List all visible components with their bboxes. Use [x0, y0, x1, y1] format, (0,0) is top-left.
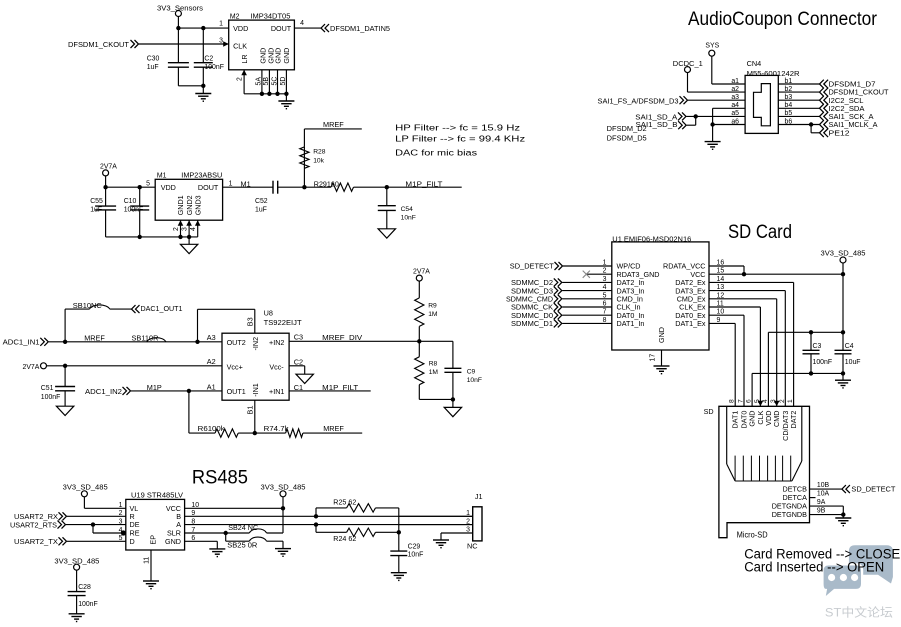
svg-text:MREF_DIV: MREF_DIV: [322, 333, 362, 342]
svg-text:VDD: VDD: [233, 24, 248, 33]
svg-text:6: 6: [746, 399, 753, 403]
svg-text:1: 1: [466, 510, 470, 517]
svg-text:ADC1_IN2: ADC1_IN2: [85, 387, 122, 396]
svg-text:EP: EP: [148, 535, 157, 545]
svg-text:U19 STR485LV: U19 STR485LV: [131, 490, 183, 499]
svg-text:MREF: MREF: [323, 424, 344, 433]
svg-text:5B: 5B: [263, 77, 270, 86]
svg-text:+IN2: +IN2: [269, 338, 284, 347]
svg-text:J1: J1: [475, 492, 483, 501]
svg-text:HP Filter --> fc = 15.9 Hz: HP Filter --> fc = 15.9 Hz: [395, 123, 520, 132]
svg-text:Vcc+: Vcc+: [227, 362, 243, 371]
svg-text:1uF: 1uF: [90, 207, 102, 214]
svg-text:a1: a1: [731, 78, 739, 85]
svg-text:R9: R9: [428, 303, 437, 310]
svg-text:DFSDM1_CKOUT: DFSDM1_CKOUT: [68, 40, 130, 49]
svg-text:100nF: 100nF: [813, 359, 833, 366]
svg-text:10k: 10k: [313, 158, 324, 165]
svg-text:DAT1: DAT1: [731, 411, 740, 429]
svg-text:8: 8: [729, 399, 736, 403]
svg-text:5C: 5C: [271, 77, 278, 86]
svg-text:OUT2: OUT2: [227, 338, 246, 347]
svg-text:CLK: CLK: [233, 42, 247, 51]
svg-text:USART2_TX: USART2_TX: [14, 537, 58, 546]
svg-text:R6100k: R6100k: [198, 424, 225, 433]
svg-text:SD_DETECT: SD_DETECT: [851, 485, 896, 494]
svg-text:GND3: GND3: [193, 195, 202, 215]
svg-text:B1: B1: [245, 406, 254, 415]
svg-text:1: 1: [603, 260, 607, 267]
svg-text:LR: LR: [240, 54, 249, 63]
svg-text:M1P_FILT: M1P_FILT: [405, 179, 443, 188]
svg-text:10nF: 10nF: [408, 552, 424, 559]
svg-text:IMP34DT05: IMP34DT05: [250, 13, 290, 20]
svg-text:SD: SD: [704, 407, 714, 416]
svg-text:C9: C9: [467, 368, 476, 375]
svg-text:R25 62: R25 62: [333, 500, 356, 507]
svg-text:3: 3: [603, 276, 607, 283]
svg-text:M1: M1: [157, 173, 167, 180]
svg-text:2V7A: 2V7A: [23, 364, 40, 371]
svg-text:5: 5: [754, 399, 761, 403]
svg-text:3: 3: [182, 227, 189, 231]
svg-text:DOUT: DOUT: [198, 183, 219, 192]
svg-text:SYS: SYS: [705, 43, 719, 50]
svg-text:R28: R28: [313, 149, 326, 156]
svg-text:A1: A1: [207, 383, 216, 392]
svg-text:4: 4: [190, 227, 197, 231]
svg-text:AudioCoupon Connector: AudioCoupon Connector: [688, 9, 878, 30]
svg-text:7: 7: [738, 399, 745, 403]
svg-text:C30: C30: [147, 56, 160, 63]
svg-text:+IN1: +IN1: [269, 387, 284, 396]
svg-text:ST中文论坛: ST中文论坛: [825, 606, 893, 620]
svg-text:B3: B3: [245, 317, 254, 326]
svg-text:10uF: 10uF: [845, 359, 861, 366]
svg-text:Micro-SD: Micro-SD: [737, 531, 768, 540]
svg-text:C3: C3: [294, 333, 303, 342]
svg-text:10nF: 10nF: [467, 377, 482, 384]
svg-text:4: 4: [762, 399, 769, 403]
svg-text:10nF: 10nF: [401, 215, 416, 222]
svg-text:a3: a3: [731, 94, 739, 101]
svg-text:3: 3: [770, 399, 777, 403]
svg-text:GND: GND: [282, 48, 291, 64]
svg-text:1M: 1M: [429, 369, 439, 376]
svg-text:100nF: 100nF: [78, 601, 98, 608]
svg-text:10A: 10A: [817, 490, 830, 497]
svg-text:100nF: 100nF: [204, 64, 224, 71]
svg-text:SB25 0R: SB25 0R: [227, 541, 257, 550]
svg-text:DAT2: DAT2: [789, 411, 798, 429]
svg-text:C54: C54: [401, 206, 414, 213]
svg-text:MREF: MREF: [84, 333, 105, 342]
svg-text:2V7A: 2V7A: [100, 164, 117, 171]
svg-text:A2: A2: [207, 357, 216, 366]
svg-text:DFSDM_D2: DFSDM_D2: [607, 124, 647, 133]
svg-text:C28: C28: [78, 584, 91, 591]
svg-text:M1P: M1P: [147, 383, 162, 392]
svg-text:9A: 9A: [817, 499, 826, 506]
svg-text:GND: GND: [657, 327, 666, 343]
svg-text:11: 11: [144, 557, 151, 564]
svg-text:USART2_RTS: USART2_RTS: [10, 520, 57, 529]
svg-text:1: 1: [787, 399, 794, 403]
svg-text:-IN2: -IN2: [251, 337, 260, 351]
svg-text:DAT1_In: DAT1_In: [617, 319, 645, 328]
svg-text:1M: 1M: [428, 311, 438, 318]
svg-text:2: 2: [237, 77, 244, 81]
svg-text:2: 2: [779, 399, 786, 403]
svg-text:RS485: RS485: [192, 468, 248, 489]
svg-text:C51: C51: [41, 385, 54, 392]
svg-text:TS922EIJT: TS922EIJT: [264, 318, 303, 327]
svg-text:SAI1_FS_A/DFSDM_D3: SAI1_FS_A/DFSDM_D3: [598, 97, 679, 106]
svg-text:Card Inserted --> OPEN: Card Inserted --> OPEN: [744, 560, 884, 576]
svg-text:CN4: CN4: [747, 59, 762, 68]
svg-text:SD Card: SD Card: [728, 222, 792, 243]
svg-text:SDMMC_D1: SDMMC_D1: [511, 319, 553, 328]
svg-text:1: 1: [219, 21, 223, 28]
svg-text:VDD: VDD: [161, 183, 176, 192]
svg-text:PE12: PE12: [829, 128, 850, 137]
svg-text:DAT1_Ex: DAT1_Ex: [675, 319, 706, 328]
svg-text:-IN1: -IN1: [251, 383, 260, 397]
svg-text:DOUT: DOUT: [271, 24, 292, 33]
svg-text:5A: 5A: [256, 77, 263, 86]
svg-text:100nF: 100nF: [124, 207, 144, 214]
svg-text:DAC1_OUT1: DAC1_OUT1: [141, 304, 183, 313]
svg-text:a6: a6: [731, 118, 739, 125]
svg-text:DAC for mic bias: DAC for mic bias: [395, 148, 477, 157]
svg-text:5D: 5D: [280, 77, 287, 86]
svg-text:GND: GND: [165, 537, 181, 546]
svg-text:4: 4: [603, 284, 607, 291]
svg-text:Vcc-: Vcc-: [269, 362, 284, 371]
svg-text:A3: A3: [207, 333, 216, 342]
svg-text:1: 1: [119, 502, 123, 509]
svg-text:C52: C52: [255, 198, 268, 205]
svg-text:ADC1_IN1: ADC1_IN1: [3, 337, 40, 346]
svg-text:a2: a2: [731, 86, 739, 93]
svg-text:17: 17: [650, 354, 657, 362]
svg-text:DFSDM_D5: DFSDM_D5: [607, 134, 647, 143]
svg-text:C29: C29: [408, 544, 421, 551]
svg-text:a5: a5: [731, 110, 739, 117]
svg-text:R24 62: R24 62: [333, 536, 356, 543]
svg-text:M2: M2: [230, 13, 240, 20]
svg-text:R8: R8: [429, 361, 438, 368]
svg-text:9B: 9B: [817, 507, 826, 514]
svg-text:C10: C10: [124, 198, 137, 205]
svg-text:R74.7k: R74.7k: [264, 424, 289, 433]
svg-text:U8: U8: [264, 308, 273, 317]
svg-text:2: 2: [466, 518, 470, 525]
svg-text:10B: 10B: [817, 482, 830, 489]
svg-text:C4: C4: [845, 343, 854, 350]
svg-text:a4: a4: [731, 102, 739, 109]
svg-text:C2: C2: [204, 56, 213, 63]
svg-text:M1P_FILT: M1P_FILT: [322, 383, 359, 392]
svg-text:SD_DETECT: SD_DETECT: [510, 262, 555, 271]
svg-text:7: 7: [603, 309, 607, 316]
svg-text:OUT1: OUT1: [227, 387, 246, 396]
svg-text:2V7A: 2V7A: [413, 268, 430, 275]
svg-text:SB24 NC: SB24 NC: [228, 523, 258, 532]
svg-text:1: 1: [229, 181, 233, 188]
svg-text:2: 2: [603, 268, 607, 275]
svg-text:8: 8: [603, 317, 607, 324]
svg-text:M1: M1: [241, 179, 251, 188]
svg-text:6: 6: [603, 301, 607, 308]
svg-text:IMP23ABSU: IMP23ABSU: [181, 173, 222, 180]
svg-text:DFSDM1_DATIN5: DFSDM1_DATIN5: [330, 24, 390, 33]
svg-text:C55: C55: [90, 198, 103, 205]
svg-text:C2: C2: [294, 357, 303, 366]
svg-text:U1 EMIF06-MSD02N16: U1 EMIF06-MSD02N16: [612, 234, 691, 243]
svg-text:D: D: [130, 537, 135, 546]
svg-text:3: 3: [219, 38, 223, 45]
svg-text:100nF: 100nF: [41, 394, 61, 401]
svg-text:4: 4: [300, 20, 304, 27]
svg-text:M55-6001242R: M55-6001242R: [747, 69, 800, 78]
svg-text:5: 5: [603, 292, 607, 299]
svg-text:DETGNDB: DETGNDB: [772, 510, 807, 519]
svg-text:MREF: MREF: [323, 120, 344, 129]
svg-text:5: 5: [146, 181, 150, 188]
svg-text:NC: NC: [467, 541, 478, 550]
svg-text:1uF: 1uF: [255, 206, 267, 213]
svg-text:2: 2: [173, 227, 180, 231]
svg-text:1uF: 1uF: [147, 64, 159, 71]
svg-text:LP Filter --> fc = 99.4 KHz: LP Filter --> fc = 99.4 KHz: [395, 134, 525, 143]
svg-text:C3: C3: [813, 343, 822, 350]
